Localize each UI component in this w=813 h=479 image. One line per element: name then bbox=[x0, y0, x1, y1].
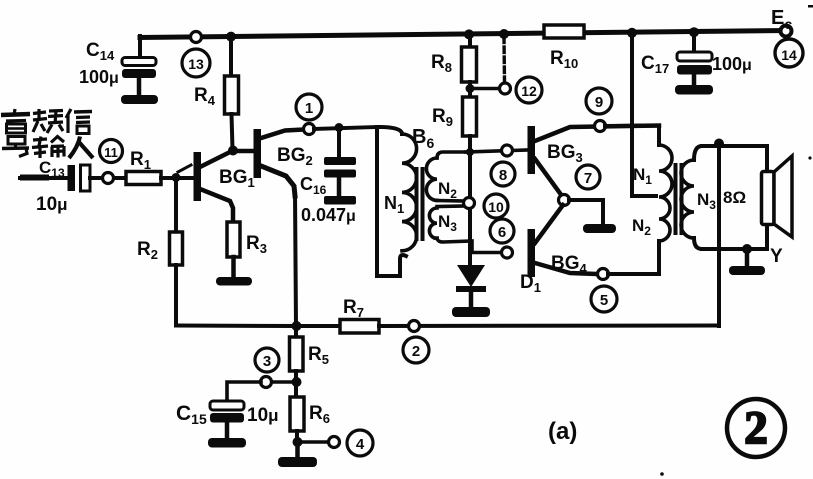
resistor R10 bbox=[544, 25, 584, 71]
wire emitters to ground bbox=[569, 200, 603, 224]
svg-text:R3: R3 bbox=[246, 233, 267, 256]
wire Ec feed to output transformer tap bbox=[632, 33, 656, 196]
output transformer primary N1/N2 bbox=[605, 126, 672, 275]
svg-text:C16: C16 bbox=[300, 174, 327, 197]
ground (C14) bbox=[121, 95, 158, 104]
resistor R6 bbox=[290, 382, 330, 443]
junction R8/R9/node12 bbox=[466, 84, 475, 93]
svg-text:13: 13 bbox=[188, 56, 204, 72]
svg-text:8Ω: 8Ω bbox=[723, 188, 746, 207]
svg-text:BG1: BG1 bbox=[219, 167, 255, 190]
svg-text:100μ: 100μ bbox=[712, 54, 752, 74]
svg-text:N1: N1 bbox=[384, 193, 404, 216]
svg-text:3: 3 bbox=[263, 353, 271, 370]
ground (R3) bbox=[216, 277, 252, 286]
resistor R4 bbox=[194, 37, 239, 149]
ground (speaker) bbox=[729, 246, 783, 275]
svg-text:C15: C15 bbox=[176, 402, 207, 427]
wire node1 to B6 primary bbox=[314, 127, 377, 129]
wire R1 to BG1 base bbox=[161, 176, 193, 180]
svg-text:C14: C14 bbox=[86, 40, 115, 63]
svg-text:R8: R8 bbox=[431, 52, 452, 75]
capacitor C15 bbox=[176, 382, 279, 439]
junction C16 tap bbox=[335, 123, 344, 132]
svg-text:N1: N1 bbox=[633, 165, 652, 187]
svg-text:Ec: Ec bbox=[771, 7, 792, 32]
svg-text:6: 6 bbox=[498, 224, 506, 241]
wire top supply rail bbox=[140, 31, 786, 38]
transformer B6 core bbox=[415, 167, 419, 241]
wire center vertical to D1 bbox=[468, 152, 472, 266]
svg-text:1: 1 bbox=[305, 100, 313, 117]
wire feedback riser bbox=[717, 144, 721, 327]
svg-text:7: 7 bbox=[584, 170, 592, 187]
node 5 bbox=[591, 269, 617, 313]
junction R4 / BG1 collector / BG2 base bbox=[228, 146, 238, 156]
junction R5/R6/node3 bbox=[292, 377, 302, 387]
svg-text:100μ: 100μ bbox=[79, 67, 119, 87]
svg-text:9: 9 bbox=[595, 94, 603, 111]
node 11 bbox=[100, 140, 123, 184]
resistor R2 bbox=[137, 178, 183, 325]
transistor BG3 bbox=[528, 126, 660, 197]
junction N3 bottom / speaker ground bbox=[742, 244, 752, 254]
diode D1 bbox=[456, 265, 541, 308]
wire to node 12 bbox=[470, 87, 500, 91]
svg-text:R6: R6 bbox=[309, 403, 330, 426]
glyph shu bbox=[32, 137, 48, 159]
svg-text:N3: N3 bbox=[438, 212, 457, 234]
transformer B6 secondary N3 bbox=[429, 206, 502, 253]
output transformer core bbox=[674, 163, 678, 235]
node 13 bbox=[182, 32, 210, 78]
junction BG1 base / R2 bbox=[172, 173, 181, 182]
glyph pin bbox=[33, 109, 47, 132]
glyph ru bbox=[69, 137, 80, 159]
svg-text:4: 4 bbox=[356, 436, 365, 453]
capacitor C13 bbox=[36, 158, 90, 215]
glyph xin bbox=[66, 109, 71, 133]
transistor BG4 bbox=[528, 205, 599, 277]
node 1 bbox=[296, 94, 322, 135]
resistor R8 bbox=[431, 36, 477, 98]
wire to BG2 base bbox=[233, 149, 254, 154]
node 8 bbox=[491, 145, 515, 186]
svg-text:R9: R9 bbox=[432, 106, 453, 129]
svg-text:N2: N2 bbox=[438, 179, 457, 201]
junction N3 top / feedback riser bbox=[714, 139, 724, 149]
resistor R7 bbox=[296, 297, 379, 333]
wire N2 top to BG3 base bbox=[466, 150, 527, 152]
wire BG2 emitter down bbox=[295, 193, 296, 326]
node 2 bbox=[403, 321, 429, 364]
resistor R3 bbox=[227, 222, 267, 278]
glyph yin bbox=[1, 114, 30, 115]
junction dots on top rail bbox=[226, 32, 236, 42]
svg-text:10: 10 bbox=[488, 199, 504, 215]
resistor R1 bbox=[126, 149, 161, 185]
transistor BG2 bbox=[254, 129, 313, 196]
svg-text:R10: R10 bbox=[550, 48, 578, 71]
svg-text:BG3: BG3 bbox=[547, 142, 583, 165]
svg-text:10μ: 10μ bbox=[36, 194, 68, 215]
capacitor C16 bbox=[300, 128, 356, 225]
junction R6/node4/ground bbox=[293, 437, 303, 447]
resistor R9 bbox=[432, 97, 477, 152]
svg-text:R7: R7 bbox=[343, 297, 364, 320]
output transformer secondary N3 bbox=[681, 146, 767, 249]
svg-text:N2: N2 bbox=[632, 216, 651, 238]
transformer B6 primary N1 bbox=[377, 126, 434, 276]
svg-text:Y: Y bbox=[770, 246, 783, 267]
svg-text:R4: R4 bbox=[194, 85, 216, 108]
svg-text:10μ: 10μ bbox=[247, 405, 279, 426]
ground (BG3/BG4 emitters) bbox=[583, 224, 616, 233]
svg-text:8: 8 bbox=[499, 167, 507, 184]
ground (R6) bbox=[278, 442, 317, 467]
junction R9 / N2 wire bbox=[466, 148, 474, 156]
svg-text:2: 2 bbox=[412, 343, 420, 360]
node 12 with dashed riser bbox=[500, 37, 543, 103]
transformer B6 secondary N2 bbox=[426, 152, 470, 201]
capacitor C14 bbox=[79, 36, 156, 96]
svg-text:11: 11 bbox=[104, 145, 118, 160]
Ec terminal bbox=[771, 7, 792, 37]
svg-text:12: 12 bbox=[521, 83, 537, 99]
glyph hao bbox=[8, 137, 25, 145]
wire input lead bbox=[20, 176, 68, 180]
node 4 bbox=[297, 430, 373, 456]
svg-text:(a): (a) bbox=[548, 418, 577, 445]
capacitor C17 bbox=[641, 32, 752, 86]
ground (C17) bbox=[675, 85, 713, 95]
svg-text:B6: B6 bbox=[412, 126, 434, 151]
svg-text:2: 2 bbox=[744, 402, 768, 454]
transistor BG1 bbox=[178, 151, 255, 223]
svg-text:0.047μ: 0.047μ bbox=[301, 205, 356, 225]
node 10 bbox=[464, 194, 509, 218]
svg-text:BG2: BG2 bbox=[277, 145, 313, 168]
figure number circled 2 bbox=[727, 399, 785, 457]
node 3 bbox=[255, 348, 296, 388]
speaker 8 ohm bbox=[723, 146, 792, 249]
node 7 common emitter bbox=[559, 165, 601, 206]
svg-text:BG4: BG4 bbox=[551, 253, 588, 276]
svg-text:N3: N3 bbox=[697, 190, 716, 212]
resistor R5 bbox=[290, 326, 329, 382]
wire C13 to R1 bbox=[90, 176, 126, 180]
ground (C15) bbox=[208, 438, 246, 448]
svg-text:14: 14 bbox=[781, 47, 797, 63]
svg-text:R5: R5 bbox=[308, 344, 329, 367]
junction R5/R7/BG2 emitter bbox=[292, 321, 302, 331]
svg-text:R1: R1 bbox=[130, 149, 151, 172]
svg-text:5: 5 bbox=[600, 292, 608, 309]
node 14 bbox=[775, 39, 803, 67]
Chinese label: audio signal input bbox=[1, 109, 93, 158]
speck bbox=[808, 156, 811, 159]
svg-text:R2: R2 bbox=[137, 239, 158, 262]
wire feedback bottom run bbox=[379, 324, 719, 329]
node 9 bbox=[586, 88, 612, 132]
ground (D1) bbox=[452, 307, 490, 317]
svg-text:C17: C17 bbox=[641, 53, 669, 76]
svg-text:C13: C13 bbox=[39, 158, 65, 180]
node 6 bbox=[490, 219, 514, 258]
wire bottom left bbox=[176, 324, 296, 329]
